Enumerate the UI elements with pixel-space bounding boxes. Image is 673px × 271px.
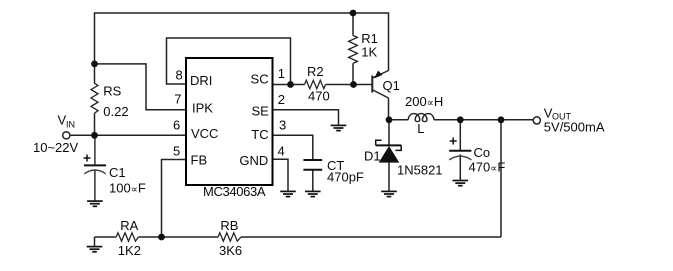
terminal VIN [63, 132, 70, 139]
resistor RS [91, 83, 98, 113]
svg-text:3: 3 [279, 118, 286, 133]
wire TC pin3 to CT [273, 135, 313, 160]
svg-text:0.22: 0.22 [103, 104, 128, 119]
svg-text:FB: FB [191, 153, 208, 168]
resistor R2 [305, 80, 326, 88]
svg-text:1N5821: 1N5821 [397, 163, 443, 178]
ground CT [305, 191, 321, 196]
ground bottom-left [87, 247, 103, 252]
svg-text:VCC: VCC [191, 126, 218, 141]
svg-text:4: 4 [278, 144, 285, 159]
wire bottom ground stem [94, 237, 96, 247]
svg-text:5: 5 [173, 144, 180, 159]
wire IPK pin7 [95, 64, 187, 110]
node R1 top [350, 10, 357, 17]
svg-text:Co: Co [474, 145, 491, 160]
svg-text:6: 6 [173, 118, 180, 133]
node Q1 base [350, 81, 357, 88]
svg-text:DRI: DRI [190, 73, 212, 88]
wire SE pin2 to ground [273, 110, 339, 126]
capacitor Co [449, 138, 471, 160]
diode D1 1N5821 schottky [376, 140, 402, 162]
wire inductor to VOUT [434, 119, 533, 121]
node FB [158, 234, 165, 241]
capacitor C1 [84, 135, 107, 201]
svg-text:IN: IN [66, 120, 75, 130]
wire bottom rail left [95, 236, 117, 238]
transistor Q1 [372, 71, 388, 99]
svg-text:RA: RA [120, 218, 138, 233]
wire SC pin1 to R2 [273, 84, 305, 86]
wire RS top lead [94, 64, 96, 83]
ground pin4 [280, 191, 296, 196]
svg-text:C1: C1 [109, 165, 126, 180]
svg-text:1K: 1K [361, 45, 377, 60]
wire RS bottom lead [94, 113, 96, 135]
svg-text:IPK: IPK [192, 101, 213, 116]
svg-text:SC: SC [251, 71, 269, 86]
op-amp U1 MC34063A box [186, 58, 273, 185]
wire top rail [95, 13, 389, 71]
wire R1 top lead [352, 13, 354, 35]
svg-text:L: L [417, 121, 424, 136]
wire Q1 collector to node [388, 98, 390, 120]
svg-text:10~22V: 10~22V [33, 140, 79, 155]
capacitor CT [303, 160, 322, 170]
wire FB pin5 down [162, 160, 187, 238]
wire Co top lead [459, 120, 461, 151]
node inductor [386, 116, 393, 123]
svg-text:2: 2 [278, 92, 285, 107]
svg-text:1: 1 [278, 66, 285, 81]
wire node to inductor [389, 119, 408, 121]
wire bottom rail right [241, 236, 501, 238]
svg-text:200∝H: 200∝H [405, 94, 443, 109]
svg-text:Q1: Q1 [383, 78, 400, 93]
wire R1 bottom lead [352, 63, 354, 84]
svg-text:470pF: 470pF [327, 170, 364, 185]
svg-text:3K6: 3K6 [219, 243, 242, 258]
svg-text:7: 7 [174, 92, 181, 107]
node SC [287, 81, 294, 88]
svg-text:RB: RB [220, 218, 238, 233]
node VIN [91, 132, 98, 139]
ground D1 [381, 191, 397, 196]
svg-text:D1: D1 [364, 149, 381, 164]
wire R2 to base node [326, 84, 354, 86]
svg-text:470: 470 [308, 89, 330, 104]
svg-text:SE: SE [251, 103, 269, 118]
wire base node to Q1 [354, 84, 372, 86]
wire D1 anode to ground [388, 163, 390, 192]
resistor RB [218, 233, 241, 241]
node output drop [498, 116, 505, 123]
svg-text:RS: RS [103, 84, 121, 99]
terminal VOUT [533, 117, 540, 124]
svg-text:100∝F: 100∝F [109, 181, 146, 196]
node RS top [91, 61, 98, 68]
svg-text:TC: TC [251, 127, 268, 142]
svg-text:8: 8 [176, 68, 183, 83]
ground SE [331, 125, 347, 130]
svg-text:5V/500mA: 5V/500mA [544, 120, 605, 135]
wire GND pin4 to ground [273, 159, 289, 191]
svg-text:MC34063A: MC34063A [203, 184, 266, 199]
wire Co bottom lead [459, 154, 461, 180]
svg-text:1K2: 1K2 [118, 243, 141, 258]
svg-text:470∝F: 470∝F [469, 160, 506, 175]
wire output drop [500, 120, 502, 237]
ground C1 [87, 201, 103, 206]
wire DRI loop [167, 38, 291, 85]
wire VIN to VCC pin6 [71, 134, 186, 136]
resistor RA [116, 233, 138, 241]
wire node to D1 [388, 120, 390, 146]
wire bottom rail mid [138, 236, 218, 238]
resistor R1 [349, 35, 358, 63]
wire CT to ground [312, 170, 314, 192]
node Co [457, 116, 464, 123]
ground Co [453, 181, 469, 186]
inductor L [408, 114, 434, 122]
svg-text:GND: GND [239, 153, 268, 168]
svg-text:R2: R2 [307, 64, 324, 79]
